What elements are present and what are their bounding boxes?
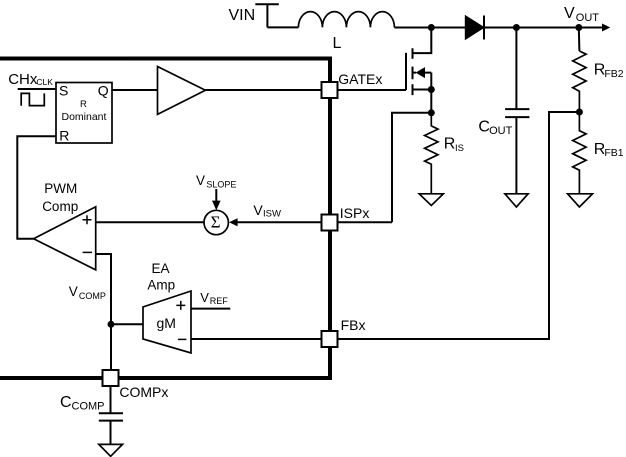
junction VCOMP node <box>108 321 115 328</box>
transistor Q1 body arrow <box>416 67 426 78</box>
clock pulse symbol <box>21 93 44 105</box>
junction feedback node <box>576 109 583 116</box>
pin GATEx <box>322 82 338 98</box>
IC boundary <box>0 59 330 379</box>
svg-text:COMP: COMP <box>79 291 106 301</box>
svg-text:Σ: Σ <box>211 213 221 232</box>
svg-text:Dominant: Dominant <box>62 111 107 123</box>
svg-text:EA: EA <box>152 261 170 276</box>
flip-flop U1 R-dominant latch <box>56 83 112 144</box>
svg-text:COMPx: COMPx <box>119 384 168 400</box>
svg-text:L: L <box>333 35 342 52</box>
ground under CCOMP <box>99 444 123 456</box>
svg-text:ISPx: ISPx <box>340 205 370 221</box>
junction COUT node <box>513 24 520 31</box>
arrow VSLOPE into sigma <box>215 189 217 201</box>
wire EA output to VCOMP node <box>111 323 143 325</box>
svg-text:VIN: VIN <box>229 7 256 24</box>
ground under RIS <box>419 194 443 206</box>
svg-text:R: R <box>59 127 69 143</box>
wire ISPx to sigma with arrow <box>236 221 322 223</box>
resistor RIS <box>425 113 438 194</box>
resistor RFB1 <box>573 112 586 194</box>
svg-text:REF: REF <box>210 296 229 306</box>
node VIN terminal <box>255 3 278 27</box>
svg-text:FBx: FBx <box>341 317 366 333</box>
svg-text:IS: IS <box>455 143 464 154</box>
svg-text:Amp: Amp <box>147 278 175 293</box>
svg-text:OUT: OUT <box>576 12 600 24</box>
minus sign PWM comp <box>83 251 93 253</box>
svg-text:Comp: Comp <box>42 199 78 214</box>
pin FBx <box>322 331 338 347</box>
svg-text:ISW: ISW <box>263 208 281 219</box>
capacitor COUT <box>515 28 517 110</box>
wire feedback node to FBx <box>338 112 580 339</box>
wire clock to S input <box>18 88 56 90</box>
svg-text:V: V <box>196 173 205 188</box>
diode D <box>465 16 484 40</box>
wire Q to buffer <box>112 89 158 91</box>
wire source to sense node <box>430 90 432 113</box>
svg-text:FB2: FB2 <box>604 68 623 80</box>
svg-text:COMP: COMP <box>72 400 105 412</box>
svg-text:V: V <box>200 290 209 305</box>
transistor Q1 drain lead <box>413 28 432 54</box>
resistor RFB2 <box>573 51 586 112</box>
capacitor CCOMP <box>110 386 112 413</box>
wire diode to VOUT <box>484 27 603 29</box>
wire EA plus input VREF stub <box>191 308 230 310</box>
svg-text:FB1: FB1 <box>604 147 623 159</box>
svg-text:C: C <box>60 394 72 411</box>
node VOUT arrow <box>602 24 610 32</box>
junction switch node <box>428 24 435 31</box>
wire PWM minus input VCOMP <box>96 254 111 370</box>
transistor Q1 gate bar <box>405 53 407 90</box>
wire VOUT to RFB2 <box>578 28 581 52</box>
junction source node <box>428 86 435 93</box>
ground under COUT <box>505 194 528 207</box>
pin COMPx <box>103 370 119 386</box>
wire buffer to GATEx <box>205 89 321 91</box>
junction sense node <box>428 109 435 116</box>
comparator U3 PWM comp <box>34 207 96 270</box>
junction VOUT node <box>575 24 582 31</box>
wire GATEx to gate <box>338 89 407 91</box>
svg-text:Q: Q <box>98 83 109 99</box>
amplifier U4 EA gm amp <box>143 291 191 353</box>
transistor Q1 channel segments <box>412 48 414 95</box>
summing junction sigma <box>204 210 228 234</box>
svg-text:V: V <box>253 202 263 218</box>
wire inductor to switch node <box>394 27 465 29</box>
svg-text:R: R <box>80 99 87 110</box>
svg-text:PWM: PWM <box>44 181 77 196</box>
buffer U2 gate driver <box>158 67 206 115</box>
svg-text:V: V <box>564 5 575 22</box>
plus sign EA amp <box>176 301 185 310</box>
svg-text:CHx: CHx <box>8 71 38 88</box>
inductor L <box>298 12 394 28</box>
wire sigma to PWM plus input <box>96 221 205 223</box>
transistor Q1 source lead <box>413 89 432 91</box>
plus sign PWM comp <box>83 215 92 224</box>
ground under RFB1 <box>568 194 593 207</box>
wire VIN to inductor <box>267 26 298 28</box>
svg-text:CLK: CLK <box>36 77 53 87</box>
wire sense node to ISPx <box>392 113 431 223</box>
svg-text:R: R <box>444 135 456 152</box>
svg-text:V: V <box>69 284 78 299</box>
minus sign EA amp <box>178 338 187 340</box>
wire PWM output to R input <box>17 136 56 238</box>
svg-text:S: S <box>59 83 68 99</box>
svg-text:GATEx: GATEx <box>338 71 382 87</box>
wire EA minus input to FBx <box>191 338 322 340</box>
wire ISPx to sense wire <box>338 221 393 223</box>
svg-text:SLOPE: SLOPE <box>206 180 236 190</box>
svg-text:gM: gM <box>157 315 176 331</box>
svg-text:OUT: OUT <box>489 125 512 137</box>
pin ISPx <box>322 215 338 231</box>
